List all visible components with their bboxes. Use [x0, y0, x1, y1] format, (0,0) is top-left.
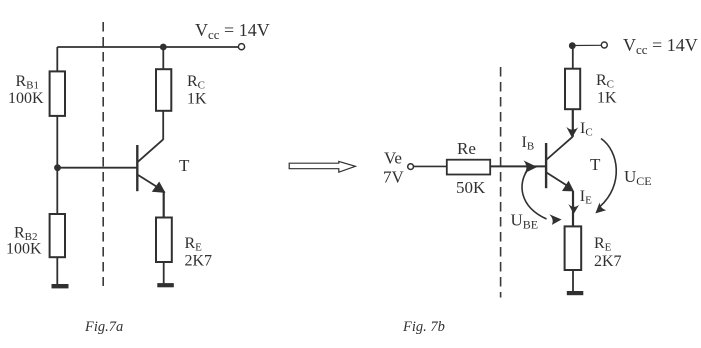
- wire: left vertical Vcc to RB1: [56, 47, 58, 71]
- node: junction top rail / Rc branch: [160, 44, 167, 51]
- terminal Vcc right (open circle): [601, 42, 607, 48]
- transistor T (right, NPN): [546, 137, 574, 192]
- svg-text:100K: 100K: [6, 241, 42, 258]
- resistor RB1: [50, 71, 65, 116]
- ground (left RE): [157, 283, 174, 287]
- wire: node to Vcc terminal: [572, 44, 601, 46]
- svg-text:T: T: [590, 155, 601, 174]
- dashed boundary line (left): [102, 22, 104, 286]
- wire: top rail Vcc: [57, 46, 238, 48]
- svg-text:Re: Re: [457, 139, 476, 158]
- arrow IE (current arrowhead, pointing down): [568, 204, 579, 214]
- wire: Ve to Re: [414, 165, 447, 167]
- terminal Ve (open circle): [408, 164, 414, 170]
- node: Vcc junction (right): [569, 42, 576, 49]
- svg-text:Fig.7a: Fig.7a: [84, 319, 123, 335]
- arc UCE (voltage arrow collector-emitter): [600, 139, 616, 207]
- wire: RB1 bottom to base node: [56, 116, 58, 214]
- wire: collector with IC arrow: [572, 109, 574, 137]
- svg-text:50K: 50K: [456, 178, 486, 197]
- wire: Rc top to Vcc node: [572, 46, 574, 69]
- wire: base wire to transistor: [57, 167, 137, 169]
- wire: collector up: [162, 111, 164, 140]
- svg-text:7V: 7V: [383, 168, 405, 187]
- terminal Vcc (open circle): [238, 44, 244, 50]
- wire: Re to base with IB arrow: [490, 165, 546, 167]
- arrow IC (current arrowhead, pointing down): [566, 127, 578, 138]
- svg-text:1K: 1K: [597, 90, 617, 107]
- resistor RE (right): [565, 226, 582, 270]
- ground (right): [567, 291, 584, 295]
- node: base divider junction: [54, 164, 61, 171]
- resistor RE (left): [156, 218, 172, 263]
- svg-text:2K7: 2K7: [185, 253, 213, 270]
- wire: RE bottom to ground (right): [572, 270, 574, 292]
- arrow IB (current arrowhead): [524, 160, 538, 173]
- resistor Rc (left): [156, 69, 171, 111]
- resistor RB2: [50, 214, 65, 257]
- svg-text:Ve: Ve: [384, 149, 402, 168]
- wire: RB2 bottom to ground: [56, 257, 58, 284]
- wire: emitter down with IE arrow: [572, 191, 574, 226]
- svg-text:T: T: [179, 156, 190, 175]
- svg-text:Fig. 7b: Fig. 7b: [402, 319, 445, 335]
- svg-text:1K: 1K: [187, 91, 207, 108]
- transistor T (left, NPN): [137, 140, 165, 193]
- svg-text:2K7: 2K7: [594, 253, 622, 270]
- resistor Re (horizontal): [447, 160, 490, 175]
- svg-text:Vcc = 14V: Vcc = 14V: [623, 35, 698, 57]
- wire: RE bottom to ground: [163, 262, 165, 284]
- resistor Rc (right): [565, 69, 580, 110]
- arc UBE (voltage arrow base-emitter): [522, 172, 546, 220]
- hollow arrow symbol: [289, 161, 355, 172]
- svg-text:Vcc = 14V: Vcc = 14V: [195, 20, 270, 42]
- wire: Rc to top rail: [162, 47, 164, 69]
- svg-text:100K: 100K: [8, 90, 44, 107]
- ground (left divider): [52, 284, 69, 288]
- wire: emitter down to RE: [163, 191, 165, 218]
- dashed boundary line (right): [500, 67, 502, 298]
